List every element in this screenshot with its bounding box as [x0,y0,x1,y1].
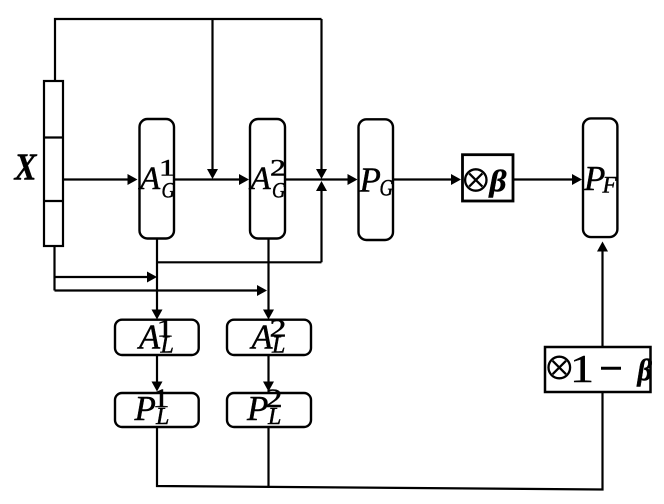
svg-text:G: G [380,176,394,202]
svg-text:β: β [488,163,506,198]
svg-text:P: P [359,160,381,199]
svg-text:F: F [602,173,618,198]
svg-text:X: X [14,146,38,188]
svg-text:A: A [249,161,272,197]
svg-text:L: L [155,404,169,430]
svg-text:L: L [271,332,285,358]
svg-text:1: 1 [570,348,594,391]
svg-text:G: G [272,177,286,202]
svg-text:G: G [162,177,176,202]
svg-text:A: A [138,161,161,197]
svg-text:L: L [160,332,174,358]
svg-text:β: β [637,352,653,387]
svg-text:L: L [267,404,281,430]
